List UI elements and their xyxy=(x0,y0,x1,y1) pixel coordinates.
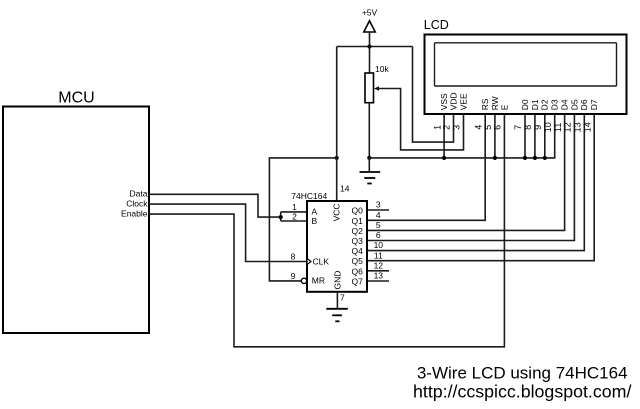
svg-text:11: 11 xyxy=(553,123,563,132)
svg-text:10: 10 xyxy=(374,240,384,250)
svg-text:Data: Data xyxy=(130,188,148,198)
svg-text:5: 5 xyxy=(376,220,381,230)
svg-text:Clock: Clock xyxy=(126,199,148,209)
svg-text:6: 6 xyxy=(493,125,503,130)
wire Enable xyxy=(149,114,504,347)
ground symbol under pot xyxy=(368,158,370,172)
wire D4 to Q2 xyxy=(367,114,565,230)
svg-text:10k: 10k xyxy=(375,64,389,74)
wire +5V rail xyxy=(337,46,413,48)
wire D1 pin down xyxy=(534,114,536,158)
svg-text:LCD: LCD xyxy=(424,18,449,32)
wire VCC vertical to pin14 xyxy=(336,47,338,202)
svg-text:http://ccspicc.blogspot.com/: http://ccspicc.blogspot.com/ xyxy=(413,382,631,402)
pot wiper arrow xyxy=(374,86,379,91)
wire Q7 stub xyxy=(367,280,389,282)
wire MR to VCC xyxy=(269,158,336,281)
MCU box xyxy=(3,107,149,334)
wire D6 to Q4 xyxy=(367,114,584,251)
svg-text:Q7: Q7 xyxy=(351,277,363,287)
svg-text:D1: D1 xyxy=(530,99,540,110)
svg-text:13: 13 xyxy=(374,271,384,281)
svg-text:D6: D6 xyxy=(579,99,589,110)
svg-text:CLK: CLK xyxy=(313,257,330,267)
svg-text:4: 4 xyxy=(376,210,381,220)
svg-text:MR: MR xyxy=(312,276,325,286)
svg-text:Q3: Q3 xyxy=(351,236,363,246)
power symbol +5V xyxy=(369,32,371,47)
svg-text:D4: D4 xyxy=(560,99,570,110)
wire Data xyxy=(149,194,281,217)
wire RW pin down xyxy=(494,114,496,158)
wire VEE branch to pot wiper xyxy=(378,89,464,150)
node VSS junction xyxy=(442,156,446,160)
wire D2 pin down xyxy=(544,114,546,158)
svg-text:13: 13 xyxy=(573,122,583,132)
svg-text:6: 6 xyxy=(376,230,381,240)
svg-text:9: 9 xyxy=(291,271,296,281)
node +5V rail junction xyxy=(367,44,371,48)
svg-text:7: 7 xyxy=(340,293,345,303)
svg-text:RS: RS xyxy=(480,98,490,110)
svg-text:D5: D5 xyxy=(569,99,579,110)
node D2 junction xyxy=(543,156,547,160)
node RW junction xyxy=(493,156,497,160)
LCD pin numbers rotated xyxy=(432,122,592,132)
svg-text:VDD: VDD xyxy=(448,92,458,110)
svg-text:Q5: Q5 xyxy=(351,256,363,266)
svg-text:4: 4 xyxy=(473,125,483,130)
LCD box xyxy=(425,35,627,115)
svg-text:9: 9 xyxy=(533,125,543,130)
svg-text:D7: D7 xyxy=(589,99,599,110)
MR bubble xyxy=(301,278,306,283)
svg-text:2: 2 xyxy=(442,125,452,130)
svg-text:E: E xyxy=(499,104,509,110)
svg-text:Q4: Q4 xyxy=(351,246,363,256)
wire Clock xyxy=(149,204,307,261)
wire D5 to Q3 xyxy=(367,114,574,241)
svg-text:Enable: Enable xyxy=(121,209,148,219)
LCD pin names rotated xyxy=(439,92,599,110)
svg-text:Q2: Q2 xyxy=(351,226,363,236)
svg-text:10: 10 xyxy=(543,122,553,132)
svg-text:+5V: +5V xyxy=(362,8,378,18)
svg-text:12: 12 xyxy=(563,122,573,132)
svg-text:D2: D2 xyxy=(540,99,550,110)
svg-text:VCC: VCC xyxy=(332,203,342,221)
wire D0 pin down xyxy=(524,114,526,158)
wire pin2 B stub xyxy=(281,220,307,222)
wire Q6 stub xyxy=(367,270,389,272)
svg-text:Q6: Q6 xyxy=(351,266,363,276)
svg-text:11: 11 xyxy=(374,250,383,260)
svg-text:VEE: VEE xyxy=(458,93,468,110)
svg-text:14: 14 xyxy=(582,122,592,132)
svg-text:Q0: Q0 xyxy=(351,206,363,216)
svg-text:B: B xyxy=(312,216,318,226)
clock triangle xyxy=(307,258,311,264)
svg-text:GND: GND xyxy=(332,271,342,290)
node Data-AB junction xyxy=(279,215,283,219)
svg-text:MCU: MCU xyxy=(58,90,94,107)
wire D7 to Q5 xyxy=(367,114,594,261)
wire RS to Q1 xyxy=(367,114,485,220)
svg-text:D0: D0 xyxy=(520,99,530,110)
svg-text:3-Wire LCD using 74HC164: 3-Wire LCD using 74HC164 xyxy=(417,363,628,382)
ground symbol under IC xyxy=(326,308,348,310)
wire GND pin7 down xyxy=(336,292,338,309)
node D1 junction xyxy=(533,156,537,160)
svg-text:7: 7 xyxy=(513,125,523,130)
svg-text:74HC164: 74HC164 xyxy=(291,191,327,201)
wire A-B tie bar xyxy=(280,212,282,221)
node MR-VCC junction xyxy=(335,156,339,160)
wire Q0 stub xyxy=(367,209,389,211)
svg-text:2: 2 xyxy=(292,211,297,221)
potentiometer 10k body xyxy=(365,73,374,103)
svg-text:3: 3 xyxy=(452,125,462,130)
wire pot bottom xyxy=(368,103,370,158)
wire pot top xyxy=(369,47,371,74)
svg-text:3: 3 xyxy=(376,200,381,210)
wire VDD branch to +5V xyxy=(413,47,454,143)
svg-text:14: 14 xyxy=(340,183,350,193)
wire VSS pin down xyxy=(443,114,445,158)
svg-text:5: 5 xyxy=(483,125,493,130)
svg-text:D3: D3 xyxy=(550,99,560,110)
74HC164 IC box xyxy=(307,201,367,292)
svg-text:12: 12 xyxy=(374,260,384,270)
wire pin1 A stub xyxy=(281,211,307,213)
LCD screen inner rect xyxy=(435,43,617,86)
svg-text:A: A xyxy=(312,207,318,217)
wire ground rail xyxy=(369,114,554,158)
svg-text:RW: RW xyxy=(490,96,500,110)
svg-text:8: 8 xyxy=(523,125,533,130)
node D0 junction xyxy=(523,156,527,160)
svg-text:Q1: Q1 xyxy=(351,216,363,226)
svg-text:8: 8 xyxy=(291,251,296,261)
node pot-ground rail junction xyxy=(367,156,371,160)
